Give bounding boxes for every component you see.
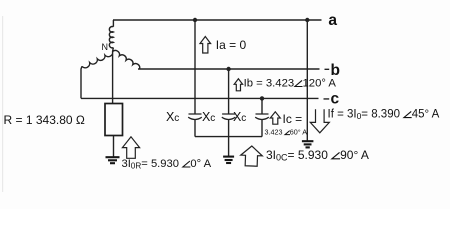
svg-text:60° A: 60° A: [290, 128, 307, 137]
svg-text:0C: 0C: [276, 152, 288, 162]
svg-text:R = 1 343.80 Ω: R = 1 343.80 Ω: [4, 113, 85, 127]
svg-text:Ib = 3.423: Ib = 3.423: [244, 78, 295, 90]
svg-text:Ic =: Ic =: [283, 112, 303, 126]
svg-text:45° A: 45° A: [412, 109, 440, 121]
svg-text:= 5.930: = 5.930: [288, 148, 329, 162]
svg-text:120° A: 120° A: [303, 78, 337, 90]
svg-text:3I: 3I: [266, 148, 276, 162]
svg-text:a: a: [328, 12, 337, 29]
svg-text:If = 3I: If = 3I: [328, 109, 357, 121]
svg-text:= 5.930: = 5.930: [141, 158, 179, 170]
svg-text:c: c: [174, 113, 179, 124]
svg-text:= 8.390: = 8.390: [361, 109, 400, 121]
svg-text:3.423: 3.423: [265, 128, 283, 137]
svg-text:0° A: 0° A: [190, 158, 211, 170]
svg-text:N: N: [102, 42, 109, 52]
svg-text:c: c: [331, 91, 340, 108]
svg-text:c: c: [241, 113, 246, 124]
svg-text:0R: 0R: [131, 162, 142, 171]
svg-text:Ia = 0: Ia = 0: [216, 38, 247, 52]
svg-text:c: c: [210, 113, 215, 124]
svg-text:b: b: [331, 62, 340, 79]
svg-text:90° A: 90° A: [340, 148, 369, 162]
svg-text:3I: 3I: [122, 158, 131, 170]
